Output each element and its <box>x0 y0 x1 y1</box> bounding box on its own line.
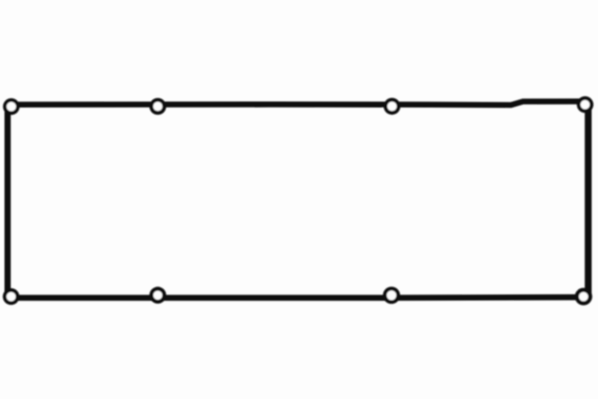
gasket perimeter outline: right edge <box>585 102 592 297</box>
bolt holes (inner white) <box>7 102 16 111</box>
gasket perimeter outline: bottom edge <box>9 294 585 300</box>
gasket perimeter outline: left edge <box>4 105 10 297</box>
gasket perimeter outline: top edge <box>9 101 586 105</box>
eyelet bosses (outer rings) <box>3 98 20 115</box>
